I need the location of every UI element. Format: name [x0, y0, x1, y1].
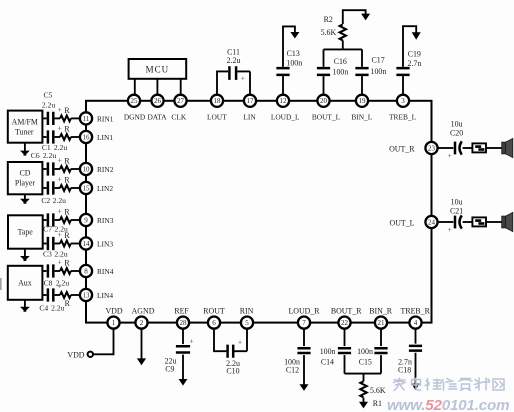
wire source to C5: [42, 117, 46, 119]
wire pin12 up to C13: [282, 76, 284, 95]
svg-text:2: 2: [140, 319, 144, 327]
svg-text:C5: C5: [43, 91, 52, 100]
svg-text:5: 5: [245, 319, 249, 327]
svg-text:11: 11: [83, 115, 90, 123]
wire pin18 to C11: [217, 71, 228, 94]
svg-text:R2: R2: [324, 15, 333, 24]
resistor R (RIN1): [60, 116, 71, 122]
wire R to pin LIN1: [71, 136, 80, 138]
pin 8 RIN4: [80, 265, 92, 277]
wire R2 to ground: [343, 10, 366, 24]
wire pin7 to C12: [303, 329, 305, 346]
svg-text:C4: C4: [39, 304, 48, 313]
wire C7 to R: [55, 219, 60, 221]
svg-text:13: 13: [83, 291, 91, 299]
MCU U2: [129, 59, 187, 79]
svg-text:LOUD_R: LOUD_R: [288, 307, 320, 316]
pin 23 OUT_R: [425, 142, 437, 154]
svg-text:RIN4: RIN4: [97, 267, 114, 276]
svg-text:C20: C20: [450, 129, 463, 138]
wire C5 to R: [55, 117, 60, 119]
capacitor C19 2.7n: [396, 68, 409, 75]
svg-text:100n: 100n: [320, 347, 336, 356]
capacitor C10 2.2u: [228, 345, 234, 358]
wire C6 to R: [55, 168, 60, 170]
svg-text:C7: C7: [43, 225, 52, 234]
capacitor C2 2.2u: [48, 181, 53, 194]
pin 20 BOUT_L: [317, 95, 329, 107]
svg-text:ROUT: ROUT: [203, 307, 225, 316]
wire C2 to R: [55, 187, 60, 189]
pin 6 ROUT: [208, 317, 220, 329]
pin 9 RIN3: [80, 214, 92, 226]
svg-text:BIN_R: BIN_R: [369, 307, 393, 316]
pin 14 LIN3: [80, 237, 92, 249]
wire C19 to ground: [403, 26, 416, 67]
wire MCU to pin 26: [156, 79, 158, 95]
pin 11 RIN1: [80, 112, 92, 124]
wire R to pin LIN2: [71, 187, 80, 189]
jack connector (left channel): [472, 217, 486, 226]
svg-text:2.2u: 2.2u: [53, 196, 66, 205]
svg-text:+: +: [241, 74, 245, 83]
capacitor C8 2.2u: [48, 264, 53, 277]
svg-text:REF: REF: [174, 307, 189, 316]
svg-text:2.2u: 2.2u: [42, 100, 55, 109]
svg-text:+: +: [448, 151, 452, 160]
pin 22 BOUT_R: [338, 317, 350, 329]
svg-text:CD: CD: [20, 168, 31, 177]
wire C12 down: [303, 355, 305, 385]
svg-text:RIN: RIN: [240, 307, 254, 316]
pin 16 LIN1: [80, 131, 92, 143]
wire R1 down: [363, 398, 365, 403]
svg-text:8: 8: [84, 267, 88, 275]
resistor R (LIN4): [60, 292, 71, 298]
wire R to pin LIN3: [71, 243, 80, 245]
svg-text:6: 6: [212, 319, 216, 327]
wire C15 down: [380, 355, 382, 374]
svg-text:RIN1: RIN1: [97, 115, 114, 124]
svg-text:24: 24: [428, 218, 436, 226]
wire C18 down: [415, 353, 417, 384]
svg-text:20: 20: [320, 97, 328, 105]
ground Tape: [24, 249, 26, 257]
wire source to C3: [42, 243, 46, 245]
AM/FM Tuner source: [8, 111, 43, 143]
svg-text:7: 7: [302, 319, 306, 327]
ground AGND: [137, 358, 146, 365]
wire MCU to pin 27: [180, 79, 182, 95]
svg-text:+: +: [58, 105, 62, 114]
capacitor C16 100n: [317, 68, 330, 75]
ground CD Player: [24, 194, 26, 200]
svg-text:C3: C3: [43, 250, 52, 259]
pin 1 VDD: [107, 317, 119, 329]
svg-text:LIN4: LIN4: [97, 291, 113, 300]
svg-text:25: 25: [131, 97, 139, 105]
pin 2 AGND: [135, 317, 147, 329]
wire pin6 to C10: [214, 329, 226, 352]
svg-text:MCU: MCU: [146, 65, 170, 75]
capacitor C20 10u: [454, 142, 457, 155]
svg-text:AM/FM: AM/FM: [12, 117, 38, 126]
svg-text:Player: Player: [15, 179, 36, 188]
pin 7 LOUD_R: [298, 317, 310, 329]
svg-text:100n: 100n: [286, 58, 302, 67]
resistor R (LIN3): [60, 241, 71, 247]
svg-text:DATA: DATA: [147, 113, 167, 122]
wire C20 to jack: [463, 147, 473, 149]
svg-text:26: 26: [154, 97, 162, 105]
svg-text:R: R: [64, 175, 70, 184]
wire pin4 to C18: [415, 329, 417, 344]
svg-text:C8: C8: [44, 279, 53, 288]
wire C16 up: [323, 49, 325, 67]
svg-text:3: 3: [401, 97, 405, 105]
svg-text:R: R: [64, 124, 70, 133]
svg-text:2.2u: 2.2u: [227, 56, 241, 65]
wire jack to speaker: [486, 221, 502, 223]
wire C1 to R: [55, 136, 60, 138]
svg-text:R: R: [64, 207, 70, 216]
svg-text:LIN2: LIN2: [97, 184, 113, 193]
svg-text:12: 12: [280, 97, 288, 105]
capacitor C18 2.7n: [409, 346, 422, 351]
svg-text:BOUT_R: BOUT_R: [331, 307, 362, 316]
svg-text:+: +: [58, 156, 62, 165]
ground AM/FM Tuner: [24, 143, 26, 152]
svg-text:23: 23: [428, 144, 436, 152]
wire C21 to jack: [463, 221, 473, 223]
wire source to C6: [42, 168, 46, 170]
svg-text:100n: 100n: [357, 347, 373, 356]
pin 10 RIN2: [80, 163, 92, 175]
wire pin19 up to C17: [361, 76, 363, 95]
wire C13 to ground: [283, 26, 295, 67]
capacitor C9 22u: [176, 346, 190, 352]
wire R to pin RIN4: [71, 270, 80, 272]
pin 5 RIN: [241, 317, 253, 329]
wire pin24 to C21: [438, 221, 454, 223]
resistor R (LIN2): [60, 185, 71, 191]
svg-text:2.7n: 2.7n: [407, 59, 421, 68]
svg-text:+: +: [58, 175, 62, 184]
wire pin28 to C9: [182, 329, 184, 344]
capacitor C12 100n: [297, 348, 310, 353]
svg-text:+: +: [58, 207, 62, 216]
svg-text:AGND: AGND: [132, 307, 155, 316]
capacitor C14 100n: [338, 348, 351, 353]
svg-text:2.2u: 2.2u: [43, 151, 56, 160]
svg-text:LOUD_L: LOUD_L: [271, 113, 300, 122]
pin 13 LIN4: [80, 289, 92, 301]
svg-text:2.2u: 2.2u: [51, 304, 64, 313]
svg-text:Aux: Aux: [18, 278, 32, 287]
svg-text:9: 9: [84, 216, 88, 224]
resistor R (RIN2): [60, 166, 71, 172]
svg-text:15: 15: [83, 184, 91, 192]
svg-text:LIN3: LIN3: [97, 240, 113, 249]
wire MCU to pin 25: [134, 79, 136, 95]
ground for C13: [290, 32, 299, 39]
svg-text:Tuner: Tuner: [15, 127, 34, 136]
wire C10 to pin5: [234, 329, 247, 352]
svg-text:100n: 100n: [333, 67, 349, 76]
svg-text:R: R: [64, 106, 70, 115]
svg-text:C9: C9: [165, 365, 174, 374]
resistor R (RIN3): [60, 217, 71, 223]
capacitor C13 100n: [276, 68, 289, 75]
capacitor C6 2.2u: [48, 162, 53, 175]
ground R1: [359, 402, 368, 409]
svg-text:OUT_L: OUT_L: [390, 219, 415, 228]
wire C4 to R: [55, 294, 60, 296]
pin 4 TREB_R: [409, 317, 421, 329]
svg-text:C12: C12: [286, 366, 299, 375]
svg-text:22: 22: [341, 319, 349, 327]
wire pin20 up to C16: [323, 76, 325, 95]
svg-text:28: 28: [180, 319, 188, 327]
ground C9: [179, 379, 188, 386]
svg-text:2.2u: 2.2u: [54, 250, 67, 259]
wire to R2: [342, 40, 344, 49]
svg-text:C17: C17: [372, 55, 385, 64]
svg-text:10u: 10u: [451, 120, 463, 129]
svg-text:19: 19: [359, 97, 367, 105]
resistor R1 5.6K: [360, 381, 366, 397]
wire pin21 to C15: [380, 329, 382, 346]
svg-text:DGND: DGND: [124, 113, 146, 122]
resistor R (RIN4): [60, 268, 71, 274]
edge artifact: [0, 278, 2, 290]
svg-text:VDD: VDD: [105, 307, 122, 316]
svg-text:10u: 10u: [451, 197, 463, 206]
svg-text:C16: C16: [334, 57, 347, 66]
capacitor C1 2.2u: [48, 130, 53, 143]
svg-text:LIN1: LIN1: [97, 133, 113, 142]
svg-text:Tape: Tape: [18, 228, 34, 237]
svg-text:C18: C18: [398, 366, 411, 375]
svg-text:LIN: LIN: [243, 113, 256, 122]
svg-text:100n: 100n: [371, 67, 387, 76]
pin 3 TREB_L: [397, 95, 409, 107]
svg-text:BIN_L: BIN_L: [351, 113, 372, 122]
capacitor C15 100n: [374, 348, 387, 353]
speaker (left channel): [502, 216, 506, 228]
pin 26 DATA: [151, 95, 163, 107]
svg-text:TREB_R: TREB_R: [401, 307, 431, 316]
svg-text:14: 14: [83, 240, 91, 248]
svg-text:R1: R1: [373, 399, 382, 408]
wire R to pin RIN1: [71, 117, 80, 119]
pin 28 REF: [177, 317, 189, 329]
svg-text:www.520101.com: www.520101.com: [387, 397, 509, 412]
CD Player source: [8, 162, 43, 194]
svg-text:2.2u: 2.2u: [56, 279, 69, 288]
IC body outline: [86, 101, 432, 323]
speaker (right channel): [502, 142, 506, 154]
wire joining C14 C15: [345, 373, 382, 375]
wire R to pin LIN4: [71, 294, 80, 296]
pin 18 LOUT: [211, 95, 223, 107]
svg-text:C15: C15: [359, 357, 372, 366]
pin 19 BIN_L: [356, 95, 368, 107]
svg-text:C19: C19: [408, 49, 421, 58]
resistor R (LIN1): [60, 134, 71, 140]
svg-text:LOUT: LOUT: [207, 113, 227, 122]
jack connector (right channel): [472, 143, 486, 152]
wire C17 up: [361, 49, 363, 67]
capacitor C3 2.2u: [48, 237, 53, 250]
svg-text:C10: C10: [226, 367, 239, 376]
svg-text:+: +: [190, 337, 194, 346]
ground Aux: [24, 300, 26, 308]
svg-text:10: 10: [83, 165, 91, 173]
wire to R1: [363, 374, 365, 382]
watermark 家电维修资料网 (drawn strokes): [394, 378, 505, 391]
svg-text:4: 4: [414, 319, 418, 327]
Aux source: [8, 266, 43, 300]
wire source to C1: [42, 136, 46, 138]
svg-text:R: R: [64, 258, 70, 267]
wire pin3 up to C19: [402, 76, 404, 95]
svg-text:C6: C6: [31, 151, 40, 160]
wire R to pin RIN2: [71, 168, 80, 170]
wire C3 to R: [55, 243, 60, 245]
svg-text:+: +: [448, 225, 452, 234]
ground C12: [300, 384, 309, 391]
ground C18: [411, 384, 419, 390]
svg-text:VDD: VDD: [67, 350, 84, 359]
ground for C19: [412, 32, 421, 40]
wire pin1 to VDD terminal: [93, 329, 113, 355]
svg-text:RIN3: RIN3: [97, 216, 114, 225]
wire R to pin RIN3: [71, 219, 80, 221]
svg-text:R: R: [65, 299, 71, 308]
wire pin2 down: [141, 329, 143, 359]
svg-text:16: 16: [83, 133, 91, 141]
pin 12 LOUD_L: [277, 95, 289, 107]
wire pin22 to C14: [344, 329, 346, 346]
svg-text:C14: C14: [321, 357, 334, 366]
svg-text:+: +: [58, 124, 62, 133]
wire source to C2: [42, 187, 46, 189]
wire C11 to pin17: [237, 71, 250, 94]
svg-text:CLK: CLK: [171, 113, 186, 122]
wire source to C8: [42, 270, 46, 272]
svg-text:18: 18: [214, 97, 222, 105]
svg-text:1: 1: [112, 319, 116, 327]
pin 17 LIN: [244, 95, 256, 107]
pin 27 CLK: [174, 95, 186, 107]
wire source to C4: [42, 294, 46, 296]
svg-text:BOUT_L: BOUT_L: [312, 113, 341, 122]
capacitor C21 10u: [454, 216, 457, 229]
pin 25 DGND: [128, 95, 140, 107]
pin 21 BIN_R: [375, 317, 387, 329]
wire C8 to R: [55, 270, 60, 272]
pin 24 OUT_L: [425, 216, 437, 228]
svg-text:C13: C13: [287, 49, 300, 58]
Tape source: [8, 215, 43, 248]
wire source to C7: [42, 219, 46, 221]
svg-text:+: +: [58, 258, 62, 267]
svg-text:C2: C2: [41, 196, 50, 205]
wire pin23 to C20: [438, 147, 454, 149]
svg-text:5.6K: 5.6K: [370, 386, 386, 395]
wire jack to speaker: [486, 147, 502, 149]
ground for R2: [361, 14, 370, 21]
capacitor C11 2.2u: [229, 66, 236, 80]
capacitor C17 100n: [355, 68, 368, 75]
svg-text:C21: C21: [450, 207, 463, 216]
capacitor C4 2.2u: [48, 288, 53, 301]
svg-text:OUT_R: OUT_R: [389, 145, 415, 154]
capacitor C5 2.2u: [48, 112, 53, 125]
wire C14 down: [344, 355, 346, 374]
wire C9 down: [182, 355, 184, 380]
resistor R2 5.6K: [340, 24, 346, 40]
svg-text:27: 27: [177, 97, 185, 105]
VDD terminal: [88, 352, 93, 357]
capacitor C7 2.2u: [48, 213, 53, 226]
svg-text:R: R: [64, 156, 70, 165]
svg-text:21: 21: [378, 319, 386, 327]
svg-text:5.6K: 5.6K: [321, 28, 337, 37]
pin 15 LIN2: [80, 182, 92, 194]
svg-text:+: +: [238, 338, 242, 347]
svg-text:2.2u: 2.2u: [55, 225, 68, 234]
svg-text:17: 17: [247, 97, 255, 105]
svg-text:RIN2: RIN2: [97, 165, 114, 174]
svg-text:TREB_L: TREB_L: [389, 113, 417, 122]
wire joining C16 C17: [324, 48, 363, 50]
